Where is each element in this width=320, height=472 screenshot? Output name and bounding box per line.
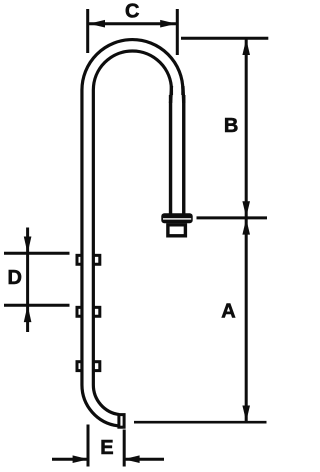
- D top arrowhead: [24, 237, 32, 254]
- ladder rail tube: right leg interior (white): [172, 95, 182, 214]
- A bottom arrowhead: [242, 406, 250, 422]
- C dimension line: [89, 22, 176, 25]
- rail mounting tab row 3 left: [77, 362, 85, 371]
- E right arrowhead: [124, 455, 140, 463]
- C right extension line: [176, 9, 179, 55]
- ladder rail tube: left leg and bends interior (white): [88, 45, 177, 420]
- rail mounting tab row 1 left: [77, 255, 85, 264]
- C left arrowhead: [89, 20, 105, 28]
- E right extension line: [123, 430, 126, 467]
- bottom extension line: [134, 421, 267, 424]
- svg-text:E: E: [100, 437, 113, 459]
- dimension line B top extension: [181, 37, 268, 40]
- D upper extension line: [4, 252, 70, 255]
- E left extension line: [87, 425, 90, 467]
- E left arrowhead: [73, 455, 89, 463]
- right leg wall transition patch (inner wall): [169, 86, 173, 103]
- flange bar: [161, 213, 192, 223]
- rail mounting tab row 2 left: [77, 307, 85, 316]
- B dimension line: [245, 40, 248, 217]
- E dimension line right tail: [125, 458, 164, 461]
- A dimension line: [245, 219, 248, 421]
- rail mounting tab row 3 right: [91, 362, 100, 371]
- D lower extension line: [4, 304, 70, 307]
- D dimension line: [26, 228, 29, 333]
- ladder rail tube: left leg and bends outline (black): [88, 45, 177, 420]
- flange nut: [168, 225, 186, 236]
- tube end cap: [119, 415, 124, 428]
- C right arrowhead: [160, 20, 176, 28]
- svg-text:D: D: [8, 267, 22, 289]
- flange level extension line: [197, 216, 268, 219]
- svg-text:C: C: [125, 1, 139, 23]
- svg-text:A: A: [221, 301, 235, 323]
- rail mounting tab row 1 right: [91, 255, 100, 264]
- B bottom arrowhead: [242, 201, 250, 217]
- svg-text:B: B: [224, 115, 238, 137]
- E dimension line left tail: [52, 458, 87, 461]
- flange white stripe: [163, 218, 191, 219]
- C left extension line: [86, 9, 89, 53]
- B top arrowhead: [242, 39, 250, 55]
- right leg wall transition patch (outer wall): [181, 86, 185, 103]
- ladder rail tube: right leg outline (black): [169, 95, 186, 214]
- A top arrowhead: [242, 219, 250, 235]
- D bottom arrowhead: [24, 305, 32, 322]
- rail mounting tab row 2 right: [91, 307, 100, 316]
